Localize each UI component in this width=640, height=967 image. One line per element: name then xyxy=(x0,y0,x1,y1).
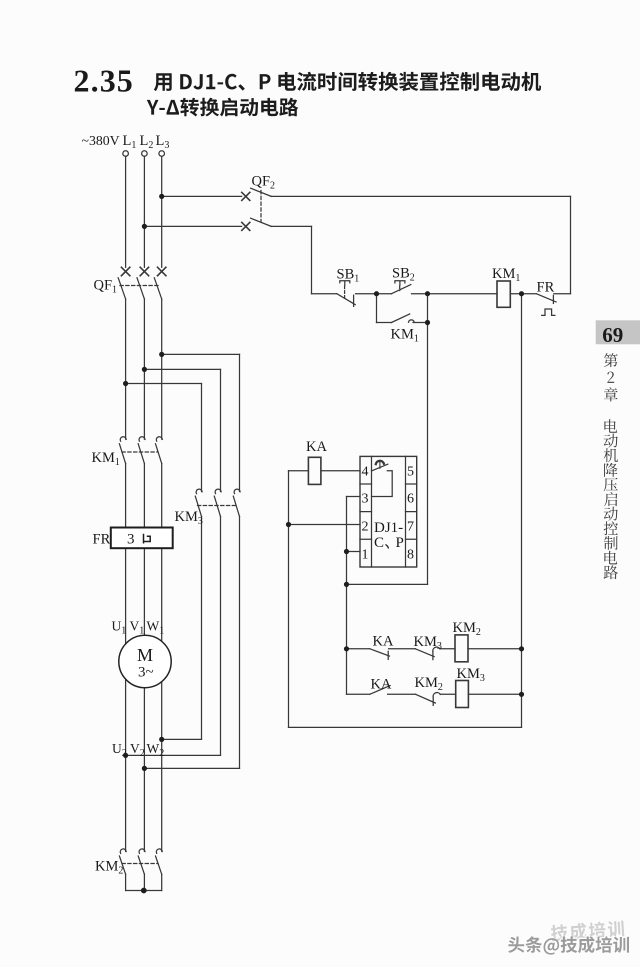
svg-text:69: 69 xyxy=(602,323,623,347)
contact KA rung1 tick xyxy=(387,651,389,659)
coil KM2 xyxy=(455,635,468,662)
wire DJ1 node to control riser xyxy=(347,583,428,585)
node star point xyxy=(141,888,147,894)
contactor KM1 linkage dashed xyxy=(122,451,158,453)
contact KM1 aux blade xyxy=(392,314,410,323)
motor M circle xyxy=(119,635,171,687)
device DJ1 internal fixed wire xyxy=(372,471,393,497)
node rung1 right junction xyxy=(519,646,524,651)
wire KM2 pole 2 lower xyxy=(143,874,145,890)
node KM1 aux right junction xyxy=(425,320,430,325)
thermal contact FR tick xyxy=(552,295,554,303)
contactor KM1 pole 3 blade xyxy=(156,444,162,464)
svg-text:1: 1 xyxy=(362,548,369,563)
contactor KM1 pole 1 blade xyxy=(119,444,125,464)
wire down to control rung xyxy=(311,226,313,293)
breaker QF1 linkage dashed xyxy=(120,285,160,287)
svg-text:2: 2 xyxy=(362,520,369,535)
wire KM2 coil to right rail xyxy=(468,648,522,650)
wire W2 to delta riser 1 xyxy=(162,738,202,740)
node L2 top branch xyxy=(142,224,147,229)
wire pin 2 out xyxy=(289,524,361,526)
contactor KM2 pole 3 arc xyxy=(156,849,162,853)
node L1 delta branch xyxy=(123,381,128,386)
svg-text:2.35: 2.35 xyxy=(74,63,134,99)
watermark text xyxy=(508,936,629,954)
wire QF2 top pole to right rail xyxy=(271,195,570,197)
thermal contact FR blade xyxy=(536,294,556,302)
node U2 branch xyxy=(123,753,128,758)
node rung1 left junction xyxy=(344,646,349,651)
wire L3 to QF2 top pole xyxy=(162,195,242,197)
wire KA to KM3 contact rung1 xyxy=(389,648,416,650)
contact KM3 NC arc rung1 xyxy=(433,647,440,651)
wire rung2 left lead xyxy=(347,693,370,695)
thermal element FR symbol xyxy=(542,309,555,315)
contact KM2 NC blade rung2 xyxy=(416,694,436,703)
breaker QF2 pole 1 blade xyxy=(251,188,272,196)
contactor KM1 pole 1 arc xyxy=(120,437,126,441)
wire L2 KM1 to motor xyxy=(143,464,145,852)
node L2 delta branch xyxy=(142,367,147,372)
contactor KM1 pole 2 blade xyxy=(138,444,144,464)
wire rung1 left lead xyxy=(347,648,370,650)
wire delta riser 2 upper xyxy=(220,369,222,491)
svg-text:FR: FR xyxy=(537,279,555,295)
wire delta riser 3 lower xyxy=(239,517,241,769)
contactor KM3 pole 1 arc xyxy=(196,489,202,493)
breaker QF1 pole 1 blade xyxy=(118,278,125,299)
svg-text:3: 3 xyxy=(127,532,135,548)
svg-text:3: 3 xyxy=(362,492,369,507)
wire branch L2 to delta riser 2 xyxy=(144,368,220,370)
node V2 branch xyxy=(142,766,147,771)
wire L1 KM1 to motor xyxy=(125,464,127,852)
svg-text:7: 7 xyxy=(407,520,414,535)
wire KM3 contact to KM2 coil xyxy=(440,648,455,650)
wire SB1 to SB2 xyxy=(356,293,392,295)
sidebar chapter text xyxy=(604,353,618,401)
thermal relay FR box element symbol xyxy=(144,534,151,544)
thermal relay FR box xyxy=(111,528,173,549)
contactor KM3 pole 2 arc xyxy=(215,489,221,493)
coil KM1 xyxy=(497,281,510,307)
contactor KM2 pole 1 arc xyxy=(120,849,126,853)
breaker QF2 pole 1 X mark xyxy=(242,192,250,200)
coil KM3 xyxy=(456,681,469,708)
breaker QF2 pole 2 blade xyxy=(251,218,272,226)
device DJ1 right pin column xyxy=(405,456,407,567)
svg-text:KA: KA xyxy=(371,677,392,693)
page number block xyxy=(596,320,640,344)
wire KM2 contact to KM3 coil xyxy=(440,693,455,695)
device DJ1 internal contact blade xyxy=(372,464,388,471)
svg-text:FR: FR xyxy=(93,532,111,548)
svg-text:6: 6 xyxy=(407,492,414,507)
contactor KM2 pole 2 arc xyxy=(139,849,145,853)
contactor KM3 pole 2 blade xyxy=(214,496,220,516)
breaker QF1 pole 3 X mark xyxy=(158,267,166,275)
node pin2 rail junction xyxy=(286,522,291,527)
svg-text:KA: KA xyxy=(306,439,327,455)
watermark ghost xyxy=(550,920,624,942)
node pin1 rail junction xyxy=(344,549,349,554)
pushbutton SB2 blade xyxy=(392,285,411,294)
node W2 branch xyxy=(159,737,164,742)
device DJ1 outer box xyxy=(360,456,417,567)
contactor KM1 pole 2 arc xyxy=(139,437,145,441)
svg-text:KA: KA xyxy=(373,634,394,650)
contact KM1 aux arc xyxy=(409,320,415,322)
watermark emboss highlight xyxy=(507,935,628,953)
wire SB2 to node xyxy=(412,293,498,295)
wire L3 QF1 to KM1 xyxy=(161,299,163,439)
wire delta riser 1 lower xyxy=(201,517,203,740)
node SB2 right junction xyxy=(425,291,430,296)
pushbutton SB1 stop tick xyxy=(353,295,355,306)
wire right rail down to FR xyxy=(570,196,572,293)
terminal L2 xyxy=(142,151,148,157)
label DJ1 model comma xyxy=(386,545,389,549)
breaker QF1 pole 2 blade xyxy=(137,278,144,299)
contactor KM3 pole 1 blade xyxy=(195,496,201,516)
wire bottom return xyxy=(289,726,522,728)
wire L1 QF1 to KM1 xyxy=(125,299,127,439)
wire KM1 coil to FR xyxy=(510,293,536,295)
wire KM1 aux left lead xyxy=(377,322,392,324)
wire left rail to SB1 xyxy=(312,293,337,295)
wire KM1 aux branch down xyxy=(376,294,378,323)
wire U2 to delta riser 2 xyxy=(126,754,221,756)
wire control node down to DJ1 xyxy=(427,294,429,585)
svg-text:8: 8 xyxy=(407,548,414,563)
wire branch L3 to delta riser 3 xyxy=(162,353,240,355)
wire L2 vertical upper xyxy=(143,156,145,267)
wire KM3 coil to right rail xyxy=(468,693,521,695)
device DJ1 internal actuator stem xyxy=(379,462,381,468)
node SB1-SB2 junction xyxy=(374,291,379,296)
breaker QF2 linkage dashed xyxy=(260,191,262,222)
terminal L3 xyxy=(159,151,165,157)
contact KM3 NC blade rung1 xyxy=(415,649,434,657)
wire FR to right rail xyxy=(554,293,571,295)
contact KM3 NC tick rung1 xyxy=(432,652,434,660)
wire L2 to QF2 bottom pole xyxy=(144,225,241,227)
node L3 delta branch xyxy=(159,352,164,357)
pushbutton SB2 actuator dashed link xyxy=(399,286,401,291)
contactor KM3 linkage dashed xyxy=(198,505,236,507)
contactor KM2 pole 2 blade xyxy=(138,856,144,874)
node L3 top branch xyxy=(159,194,164,199)
device DJ1 pin dividers xyxy=(360,484,417,539)
svg-text:C: C xyxy=(374,535,384,551)
wire left rail vertical xyxy=(288,471,290,728)
title line 1 xyxy=(154,72,541,91)
node DJ1 rail junction xyxy=(344,582,349,587)
contactor KM2 pole 3 blade xyxy=(156,856,162,874)
wire KA to pin 4 xyxy=(321,470,360,472)
wire QF2 bottom pole right xyxy=(271,225,311,227)
pushbutton SB2 actuator xyxy=(395,281,405,285)
svg-text:DJ1-: DJ1- xyxy=(374,520,403,536)
contactor KM2 linkage dashed xyxy=(122,863,158,865)
wire pin 3 rail down xyxy=(346,497,348,695)
contactor KM1 pole 3 arc xyxy=(156,437,162,441)
wire pin 3 out xyxy=(347,496,361,498)
svg-text:4: 4 xyxy=(362,465,369,480)
device DJ1 left pin column xyxy=(371,456,373,567)
contact KM2 NC arc rung2 xyxy=(433,693,440,697)
contact KA rung1 blade xyxy=(370,649,390,656)
device DJ1 internal actuator cap xyxy=(376,461,384,464)
wire V2 to delta riser 3 xyxy=(144,767,239,769)
wire L2 QF1 to KM1 xyxy=(143,299,145,439)
wire delta riser 1 upper xyxy=(201,384,203,492)
wire pin 1 out xyxy=(347,551,361,553)
wire L3 KM1 to motor xyxy=(161,464,163,852)
wire KM2 pole 1 lower xyxy=(125,874,127,890)
node rung2 right junction xyxy=(519,692,524,697)
relay coil KA xyxy=(308,457,321,484)
svg-text:P: P xyxy=(396,535,404,551)
breaker QF1 pole 3 blade xyxy=(154,278,161,299)
wire delta riser 2 lower xyxy=(220,517,222,756)
wire KA to KM2 contact rung2 xyxy=(388,693,416,695)
svg-text:M: M xyxy=(137,645,153,665)
wire delta riser 3 upper xyxy=(239,354,241,491)
contactor KM3 pole 3 arc xyxy=(234,489,240,493)
svg-text:~380V: ~380V xyxy=(82,133,120,148)
svg-text:3~: 3~ xyxy=(138,665,154,681)
node KM1 coil right junction xyxy=(519,291,524,296)
pushbutton SB1 actuator dashed link xyxy=(344,286,346,299)
wire L1 vertical upper xyxy=(125,156,127,267)
wire KM1 aux right lead xyxy=(413,322,428,324)
breaker QF1 pole 1 X mark xyxy=(121,267,129,275)
wire branch L1 to delta riser 1 xyxy=(126,383,202,385)
wire star point bar xyxy=(126,890,162,892)
contactor KM3 pole 3 blade xyxy=(233,496,239,516)
breaker QF2 pole 2 X mark xyxy=(242,222,250,230)
wire L3 vertical upper xyxy=(161,156,163,267)
terminal L1 xyxy=(123,151,129,157)
wire left rail to KA xyxy=(289,470,309,472)
svg-text:5: 5 xyxy=(407,465,414,480)
wire KM1 coil node down xyxy=(521,294,523,728)
breaker QF1 pole 2 X mark xyxy=(140,267,148,275)
pushbutton SB1 actuator xyxy=(340,281,350,285)
contactor KM2 pole 1 blade xyxy=(119,856,125,874)
pushbutton SB1 blade xyxy=(337,294,355,305)
wire KM2 pole 3 lower xyxy=(161,874,163,890)
title line 2 xyxy=(147,98,299,117)
contact KM2 NC tick rung2 xyxy=(432,697,434,705)
contact KA rung2 blade xyxy=(370,686,390,695)
